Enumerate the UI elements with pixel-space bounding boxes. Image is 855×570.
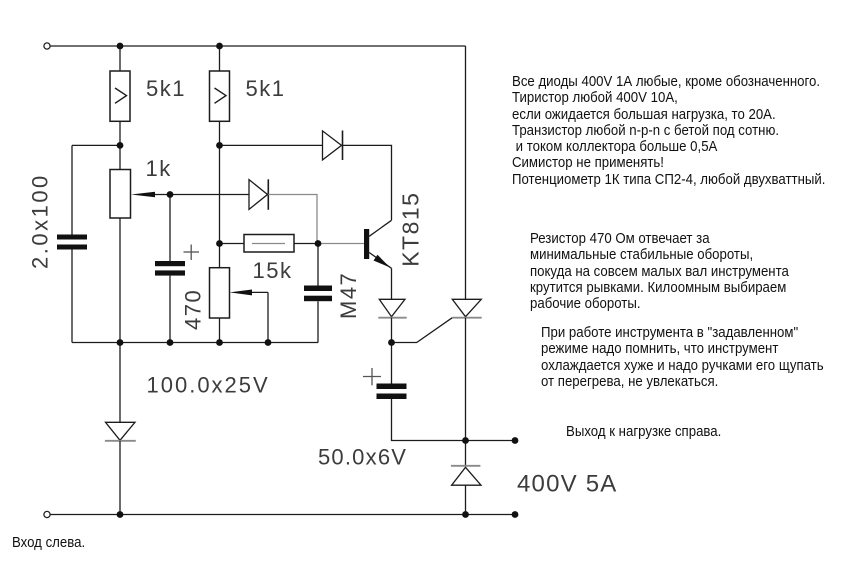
wire wiper node to diode VD2	[170, 194, 249, 196]
wire thyristor anode lead	[465, 46, 467, 299]
wire VD5 anode lead	[465, 485, 467, 514]
node A mid	[117, 142, 124, 149]
C4 plus sign	[363, 368, 381, 385]
svg-text:1k: 1k	[146, 156, 172, 181]
wire pot RP1 bottom lead	[119, 218, 121, 422]
thyristor gate wire	[392, 318, 453, 343]
node bottom rail G	[462, 511, 469, 518]
resistor R1 5k1 body	[110, 71, 130, 121]
resistor R3 15k body	[244, 235, 294, 253]
trimmer R4 wiper arrow	[230, 290, 269, 343]
wire node B down to 15k	[219, 145, 221, 243]
node input terminal top	[44, 43, 50, 49]
svg-text:M47: M47	[336, 272, 361, 319]
resistor R2 5k1 body	[210, 71, 230, 121]
diode VD4	[105, 422, 136, 441]
potentiometer RP1 1k body	[110, 170, 131, 219]
wire cap C2 bottom lead	[169, 276, 171, 343]
capacitor C2 100.0x25V plates	[155, 261, 185, 276]
wire 15k left lead	[220, 243, 245, 245]
pot RP1 wiper arrow	[131, 192, 170, 198]
wire left stub to cap branch	[72, 144, 120, 146]
capacitor C4 50.0x6V plates	[377, 384, 407, 400]
wire bottom rail of control block	[72, 342, 318, 344]
C2 plus sign	[184, 245, 200, 261]
node B mid	[216, 142, 223, 149]
wire 15k right lead	[294, 243, 318, 245]
wire emitter lead	[391, 268, 393, 299]
wire VD3 to gate node	[391, 318, 393, 343]
wire top rail	[50, 45, 465, 47]
node 15k right	[315, 240, 322, 247]
wire cap C3 bottom lead	[317, 301, 319, 342]
wire bottom input rail	[50, 514, 515, 516]
svg-text:5k1: 5k1	[146, 76, 186, 101]
svg-text:100.0x25V: 100.0x25V	[147, 373, 270, 398]
svg-text:15k: 15k	[253, 258, 293, 283]
wire cap C1 bottom lead	[71, 250, 73, 343]
diode VD1	[323, 131, 343, 161]
wire base lead (gray)	[318, 243, 364, 245]
wire R1 top lead	[119, 46, 121, 71]
node input terminal bottom	[44, 511, 50, 517]
node rail B	[216, 339, 223, 346]
note output	[566, 424, 721, 440]
node rail A	[117, 339, 124, 346]
svg-text:400V 5А: 400V 5А	[517, 471, 617, 498]
wire thyristor cathode lead	[465, 318, 467, 466]
diode VD2	[249, 179, 268, 210]
wire cap C2 top lead	[169, 195, 171, 262]
node rail D	[265, 339, 272, 346]
note block 3	[541, 325, 824, 390]
node gate	[388, 339, 395, 346]
wire from VD2 to 15k right node (gray)	[268, 195, 317, 244]
wire node B to diode VD1	[220, 144, 323, 146]
node output top mid	[462, 437, 469, 444]
note input	[12, 535, 85, 551]
wire cap C3 top lead	[317, 244, 319, 286]
node top rail B	[216, 43, 223, 50]
wire cap C1 top lead	[71, 145, 73, 234]
wire VD4 bottom lead	[119, 441, 121, 515]
wire trimmer R4 bottom lead	[219, 318, 221, 343]
wire VD1 to collector corner	[343, 145, 392, 220]
note block 1	[512, 74, 825, 188]
node wiper	[167, 191, 174, 198]
svg-text:5k1: 5k1	[246, 76, 286, 101]
wire trimmer R4 top lead	[219, 244, 221, 268]
svg-text:2.0x100: 2.0x100	[28, 173, 53, 269]
node top rail A	[117, 43, 124, 50]
node rail C	[167, 339, 174, 346]
wire R2 bottom lead	[219, 121, 221, 145]
node bottom rail end	[512, 511, 519, 518]
trimmer R4 470 body	[210, 268, 230, 318]
svg-text:470: 470	[181, 289, 206, 330]
note block 2	[530, 231, 789, 312]
wire cap C4 bottom lead to output row	[392, 399, 516, 441]
svg-text:50.0x6V: 50.0x6V	[318, 445, 407, 470]
node output top end	[512, 437, 519, 444]
wire pot RP1 top lead	[119, 145, 121, 169]
wire R2 top lead	[219, 46, 221, 71]
node bottom rail A	[117, 511, 124, 518]
wire cap C4 top lead	[391, 343, 393, 384]
wire R1 bottom lead	[119, 121, 121, 145]
thyristor VS1	[452, 299, 481, 317]
diode VD5 400V 5A	[451, 466, 481, 485]
capacitor C1 2.0x100 plates	[57, 235, 87, 250]
node 15k left	[216, 240, 223, 247]
diode VD3	[378, 299, 406, 317]
transistor Q1 KT815	[364, 220, 392, 268]
capacitor C3 M47 plates	[304, 286, 332, 302]
svg-text:KT815: KT815	[398, 192, 424, 267]
